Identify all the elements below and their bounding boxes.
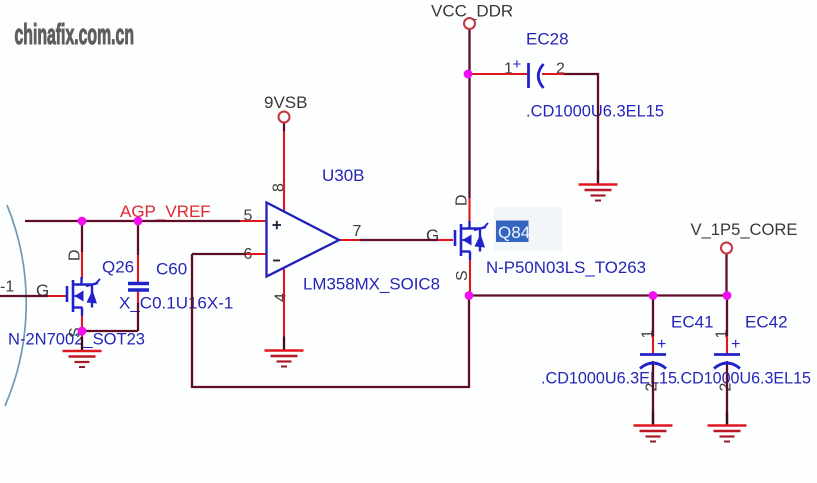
- value N-2N7002_SOT23: [8, 330, 145, 349]
- svg-text:C60: C60: [156, 260, 187, 279]
- pin 7 number: [353, 223, 362, 240]
- pin 4 number: [273, 293, 290, 302]
- pin 1 number EC42: [714, 330, 731, 339]
- pin 2 number EC41: [644, 383, 661, 392]
- pin name G Q26: [36, 281, 49, 300]
- transistor Q84: [455, 221, 488, 260]
- pin name D Q26: [67, 249, 84, 261]
- label EC42: [745, 313, 788, 332]
- wire EC42 top: [726, 296, 728, 355]
- junction node AGP_VREF / Q26 drain: [78, 217, 87, 226]
- net fragment -1: [0, 279, 14, 296]
- label LM358MX_SOIC8: [303, 275, 440, 294]
- svg-text:U30B: U30B: [322, 166, 365, 185]
- svg-text:LM358MX_SOIC8: LM358MX_SOIC8: [303, 275, 440, 294]
- pin 1 number EC41: [640, 330, 657, 339]
- plus mark EC41: [657, 336, 666, 353]
- power port 9VSB: [279, 112, 290, 123]
- wire EC41 top: [652, 296, 654, 355]
- svg-text:X_C0.1U16X-1: X_C0.1U16X-1: [119, 294, 233, 313]
- junction node AGP_VREF / C60: [134, 217, 143, 226]
- wire C60 bottom vertical: [137, 290, 139, 331]
- wire VCC junction to EC28 pin1: [469, 73, 527, 75]
- svg-text:9VSB: 9VSB: [264, 93, 307, 112]
- value .CD1000U6.3EL15 EC41: [541, 369, 677, 388]
- value .CD1000U6.3EL15 EC42: [676, 369, 811, 388]
- svg-text:EC28: EC28: [526, 30, 569, 49]
- plus mark EC42: [731, 336, 740, 353]
- svg-text:S: S: [454, 270, 471, 281]
- highlight box behind Q84 area: [494, 207, 562, 251]
- svg-text:+: +: [513, 56, 522, 73]
- junction node EC42 / V_1P5_CORE: [723, 291, 732, 300]
- label 9VSB: [264, 93, 307, 112]
- junction node VCC_DDR / EC28: [464, 70, 473, 79]
- wire source bus horizontal: [469, 294, 727, 296]
- pin 5 number: [244, 208, 253, 225]
- svg-text:EC41: EC41: [671, 313, 714, 332]
- net label AGP_VREF: [120, 202, 211, 221]
- value N-P50N03LS_TO263: [486, 258, 646, 277]
- label VCC_DDR: [431, 2, 513, 21]
- pin 2 number EC28: [556, 61, 565, 78]
- pin 2 number EC42: [718, 383, 735, 392]
- pin name D Q84: [454, 194, 471, 206]
- label EC28: [526, 30, 569, 49]
- svg-text:chinafix.com.cn: chinafix.com.cn: [15, 19, 135, 51]
- svg-text:+: +: [657, 336, 666, 353]
- svg-text:D: D: [454, 194, 471, 206]
- pin 1 number EC28: [504, 61, 513, 78]
- junction node Q26 source: [78, 327, 87, 336]
- wire 9VSB to op-amp pin8: [283, 122, 285, 212]
- wire EC28 pin2 to ground: [542, 74, 598, 180]
- value X_C0.1U16X-1: [119, 294, 233, 313]
- label V_1P5_CORE: [691, 220, 798, 239]
- pin name S Q84: [454, 270, 471, 281]
- wire Q26 gate: [0, 295, 66, 297]
- wire op-amp output to Q84 gate: [340, 239, 453, 241]
- ground under EC42: [708, 412, 747, 442]
- wire V_1P5_CORE down: [725, 254, 727, 296]
- pin 8 number: [271, 183, 288, 192]
- svg-text:N-P50N03LS_TO263: N-P50N03LS_TO263: [486, 258, 646, 277]
- svg-text:AGP_VREF: AGP_VREF: [120, 202, 211, 221]
- wire Q26 drain vertical: [81, 221, 83, 279]
- decorative arc left: [5, 205, 26, 406]
- wire Q84 source down: [469, 258, 471, 296]
- ground under EC41: [634, 412, 673, 442]
- svg-text:4: 4: [273, 293, 290, 302]
- svg-text:Q26: Q26: [102, 258, 134, 277]
- plus mark EC28: [513, 56, 522, 73]
- pin 6 number: [244, 246, 253, 263]
- wire C60 top vertical: [137, 221, 139, 282]
- svg-text:7: 7: [353, 223, 362, 240]
- pin name S Q26: [67, 327, 84, 338]
- power port V_1P5_CORE: [721, 243, 732, 254]
- capacitor EC28: [529, 63, 544, 88]
- watermark chinafix.com.cn: [15, 19, 135, 51]
- wire pin6 horizontal: [192, 253, 266, 255]
- svg-text:V_1P5_CORE: V_1P5_CORE: [691, 220, 798, 239]
- value .CD1000U6.3EL15 EC28: [526, 102, 664, 121]
- wire feedback loop: [192, 254, 469, 387]
- svg-text:Q84: Q84: [498, 223, 530, 242]
- ground under EC28: [579, 171, 618, 201]
- capacitor C60: [128, 284, 149, 291]
- wire Q26 source to ground: [81, 316, 83, 338]
- ground under Q26: [63, 337, 102, 367]
- label U30B: [322, 166, 365, 185]
- svg-text:EC42: EC42: [745, 313, 788, 332]
- capacitor EC41: [640, 355, 666, 369]
- label C60: [156, 260, 187, 279]
- junction node Q84 source: [465, 291, 474, 300]
- label Q26: [102, 258, 134, 277]
- wire VCC_DDR to Q84 drain: [468, 29, 470, 222]
- label EC41: [671, 313, 714, 332]
- wire op-amp pin4 to ground: [283, 269, 285, 337]
- svg-text:+: +: [731, 336, 740, 353]
- pin name G Q84: [426, 226, 439, 245]
- svg-text:G: G: [426, 226, 439, 245]
- capacitor EC42: [714, 355, 740, 369]
- wire EC42 bottom to ground: [726, 361, 728, 424]
- wire AGP_VREF horizontal: [25, 220, 266, 222]
- svg-text:.CD1000U6.3EL15: .CD1000U6.3EL15: [526, 102, 664, 121]
- svg-text:.CD1000U6.3EL15: .CD1000U6.3EL15: [676, 369, 811, 388]
- transistor Q26: [67, 277, 100, 316]
- wire C60 bottom to Q26 source: [81, 330, 138, 332]
- op-amp U1 triangle: [267, 203, 340, 277]
- power port VCC_DDR: [464, 18, 475, 29]
- junction node EC41: [649, 291, 658, 300]
- wire EC41 bottom to ground: [652, 361, 654, 424]
- ground under op-amp pin4: [265, 337, 304, 367]
- Q84 selected reference box: [496, 221, 530, 243]
- svg-text:-1: -1: [0, 279, 14, 296]
